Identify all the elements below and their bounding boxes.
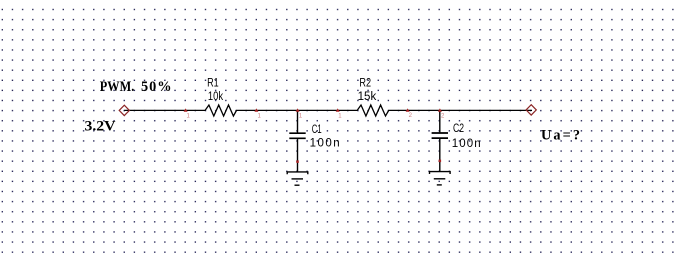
svg-text:100n: 100n (310, 137, 340, 149)
svg-text:15k: 15k (358, 91, 377, 103)
svg-text:50%: 50% (141, 79, 172, 95)
svg-text:C1: C1 (312, 124, 322, 136)
svg-text:R1: R1 (207, 78, 219, 90)
svg-text:10k: 10k (208, 91, 223, 103)
svg-text:100n: 100n (452, 138, 481, 150)
svg-text:Ua=?: Ua=? (541, 128, 580, 144)
svg-text:3.2V: 3.2V (85, 119, 117, 135)
svg-text:PWM.: PWM. (100, 79, 135, 95)
svg-text:R2: R2 (359, 77, 371, 89)
svg-text:C2: C2 (453, 123, 464, 135)
